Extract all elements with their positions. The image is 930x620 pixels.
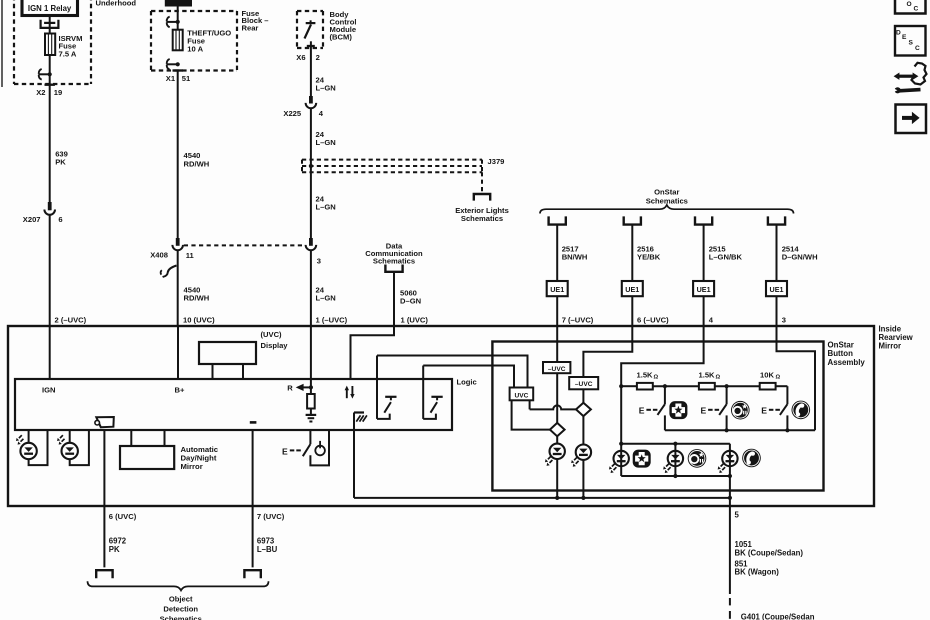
resistor ladder bus (621, 385, 787, 387)
svg-text:6: 6 (58, 215, 62, 224)
fuse ISRVM 7.5 A (45, 34, 55, 56)
svg-text:E: E (282, 446, 288, 456)
logic block UVC (510, 388, 534, 401)
svg-text:OnStar: OnStar (828, 340, 854, 349)
svg-text:X408: X408 (150, 251, 168, 260)
pin label 3 (782, 316, 786, 325)
button LED 2 (663, 444, 683, 476)
wire into THEFT fuse (177, 7, 179, 30)
svg-text:3: 3 (317, 257, 321, 266)
svg-text:Detection: Detection (163, 605, 198, 614)
body control module dashed box (297, 11, 323, 48)
label Inside Rearview Mirror (879, 324, 914, 350)
terminal hook below X408 (161, 266, 177, 278)
svg-text:BN/WH: BN/WH (562, 252, 588, 261)
pin label 5 (735, 510, 740, 519)
underhood fuse block dashed box (14, 0, 91, 84)
label OnStar Button Assembly (828, 340, 866, 367)
label X6 2 (296, 53, 320, 62)
svg-text:BK (Coupe/Sedan): BK (Coupe/Sedan) (735, 548, 804, 557)
wire UVC to diode 1 (512, 400, 550, 429)
svg-text:D–GN: D–GN (400, 296, 421, 305)
svg-text:X6: X6 (296, 53, 305, 62)
node R with arrow (287, 383, 313, 392)
wire 4540 RD/WH upper (177, 71, 179, 239)
svg-text:Ω: Ω (716, 374, 721, 380)
wire B+ feed (177, 326, 179, 379)
svg-text:UE1: UE1 (697, 285, 711, 294)
svg-text:5: 5 (735, 510, 740, 519)
photocell 2 (57, 430, 89, 465)
svg-text:UVC: UVC (514, 392, 528, 399)
logic block -UVC first (543, 362, 570, 373)
svg-text:Display: Display (261, 341, 289, 350)
wire UVC to diode 2 with hop (530, 400, 576, 409)
svg-text:6 (UVC): 6 (UVC) (109, 512, 137, 521)
connector UE1 on 2514 (766, 281, 787, 296)
pin label 7 (UVC) (257, 512, 285, 521)
wire 639 PK lower (49, 215, 51, 326)
label ISRVM Fuse 7.5 A (59, 34, 83, 59)
svg-text:Underhood: Underhood (96, 0, 137, 7)
terminal label minus (250, 421, 257, 424)
svg-text:10 A: 10 A (187, 44, 203, 53)
icon phone small (742, 449, 761, 468)
svg-text:YE/BK: YE/BK (637, 252, 661, 261)
terminal label B+ (175, 385, 185, 394)
svg-text:Ω: Ω (654, 374, 659, 380)
pin label 4 (709, 316, 714, 325)
logic block -UVC second (569, 377, 598, 389)
label Automatic Day/Night Mirror (181, 445, 219, 471)
button switch 2 onstar (701, 386, 727, 430)
connector UE1 on 2516 (622, 281, 643, 296)
svg-text:X2: X2 (36, 88, 45, 97)
svg-text:4: 4 (319, 109, 324, 118)
label 4540 RD/WH second (184, 285, 210, 302)
label Data Communication Schematics (365, 241, 423, 265)
pin label 6 (–UVC) (637, 316, 669, 325)
off-page connector wire 2514 (768, 216, 785, 224)
LED row top rail (619, 442, 730, 446)
connector X408 on L-GN wire (306, 238, 317, 250)
svg-text:51: 51 (182, 74, 191, 83)
label 5060 D-GN (400, 288, 421, 305)
node after R1 (663, 384, 667, 388)
wire 6972 PK (103, 430, 105, 567)
connector UE1 on 2515 (693, 281, 714, 296)
case ground in mirror (354, 413, 367, 422)
connector X408 on RD/WH wire (172, 238, 183, 250)
svg-text:RD/WH: RD/WH (184, 159, 210, 168)
svg-text:O: O (907, 1, 912, 8)
svg-text:UE1: UE1 (770, 285, 784, 294)
relay box stub (cut off) (165, 0, 192, 7)
nav icon component locator (893, 63, 926, 94)
svg-text:L–GN: L–GN (316, 84, 336, 93)
icon emergency cross (669, 401, 687, 419)
ground bus wire (354, 497, 730, 499)
wire 6(-UVC) into -UVC second (583, 326, 632, 377)
label Body Control Module (BCM) (330, 10, 357, 42)
brace OnStar (540, 205, 794, 214)
connector UE1 on 2517 (547, 281, 568, 296)
label G401 ground (741, 613, 815, 620)
wire 2517 into mirror (556, 296, 558, 326)
connector X225 (306, 96, 317, 108)
wire from IGN 1 Relay (49, 16, 51, 34)
connector pin bar X6-2 (307, 45, 315, 47)
svg-text:D–GN/WH: D–GN/WH (782, 252, 818, 261)
svg-text:Assembly: Assembly (828, 358, 866, 367)
svg-text:PK: PK (109, 545, 120, 554)
nav icon DESC box (895, 26, 926, 56)
label Fuse Block - Rear (242, 9, 269, 33)
wire IGN feed (49, 326, 51, 379)
off-page connector 6972 (96, 570, 112, 578)
connector pin bar X2-19 (45, 83, 55, 85)
power symbol (315, 441, 325, 455)
svg-text:UE1: UE1 (550, 285, 564, 294)
photocell 1 (16, 430, 48, 465)
svg-text:(UVC): (UVC) (261, 330, 283, 339)
svg-text:Mirror: Mirror (181, 462, 203, 471)
svg-text:2: 2 (316, 53, 320, 62)
diode diamond 1 (550, 423, 565, 436)
relay socket terminal (41, 20, 59, 28)
wire 639 PK upper (49, 84, 51, 202)
svg-text:C: C (915, 45, 920, 52)
nav icon LOC box (895, 0, 926, 14)
label 2516 YE/BK (637, 244, 661, 261)
off-page connector exterior lights (474, 194, 490, 201)
off-page connector wire 2515 (695, 216, 712, 224)
pin label 7 (–UVC) (562, 316, 594, 325)
svg-text:10 (UVC): 10 (UVC) (183, 316, 215, 325)
junction at J379 (309, 164, 313, 168)
mirror internal circuit box (15, 379, 452, 430)
resistor R1 1.5K (637, 383, 653, 390)
svg-text:1.5K: 1.5K (637, 371, 654, 380)
wire 2514 D–GN/WH (776, 225, 778, 281)
label Object Detection Schematics (160, 594, 202, 620)
label OnStar Schematics (646, 188, 688, 206)
label Underhood (96, 0, 137, 7)
BCM output driver switch (305, 20, 316, 38)
label X2 19 (36, 88, 62, 97)
earth ground in mirror (306, 415, 317, 422)
label 24 L-GN c (316, 194, 336, 211)
label 24 L-GN b (316, 130, 336, 147)
off-page connector wire 2516 (624, 216, 641, 224)
svg-text:2 (–UVC): 2 (–UVC) (55, 316, 87, 325)
svg-text:B+: B+ (175, 385, 185, 394)
resistor R3 10K (760, 383, 776, 390)
LED row bottom rail (621, 474, 732, 478)
svg-text:D: D (896, 29, 901, 36)
label 2517 BN/WH (562, 244, 588, 261)
pin label 1 (-UVC) (316, 316, 348, 325)
svg-text:S: S (909, 40, 914, 47)
button switch 1 emergency (639, 386, 665, 430)
forward sensor glyph (95, 417, 114, 427)
svg-text:RD/WH: RD/WH (184, 294, 210, 303)
wire bus to switch 3 (786, 386, 788, 404)
svg-text:L–GN/BK: L–GN/BK (709, 252, 743, 261)
svg-text:E: E (761, 405, 767, 415)
data in/out arrows (345, 386, 355, 399)
svg-text:11: 11 (186, 251, 195, 260)
off-page connector wire 2517 (549, 216, 566, 224)
label pin 3 of X408 (317, 257, 321, 266)
button LED 1 (609, 444, 629, 476)
wire 6973 L-BU (252, 430, 254, 567)
label Logic (457, 377, 477, 386)
label 2515 L–GN/BK (709, 244, 743, 261)
label 1051 BK / 851 BK (735, 540, 804, 577)
connector X207 (44, 202, 55, 215)
relay K-IGN1 IGN 1 Relay (22, 0, 78, 16)
svg-text:C: C (914, 5, 919, 12)
wire 2517 BN/WH (556, 225, 558, 281)
svg-text:X1: X1 (166, 74, 176, 83)
svg-text:OnStar: OnStar (654, 188, 679, 197)
wire 2516 YE/BK (631, 225, 633, 281)
label J379 (488, 157, 505, 166)
svg-text:Rear: Rear (242, 23, 259, 32)
label 6972 PK (109, 536, 127, 553)
label X207 6 (23, 215, 63, 224)
wire pin 3 to common return (777, 326, 816, 430)
label 6973 L-BU (257, 536, 278, 553)
pin label 2 (-UVC) (55, 316, 87, 325)
svg-text:Schematics: Schematics (461, 214, 503, 223)
label THEFT/UGO Fuse 10 A (187, 29, 231, 54)
terminal fork below THEFT fuse (166, 59, 179, 70)
svg-text:Button: Button (828, 349, 854, 358)
dashed drop to exterior lights (481, 172, 483, 193)
svg-text:L–GN: L–GN (316, 202, 336, 211)
label 1.5K ohm b (699, 371, 721, 381)
wire pin 4 feed (621, 326, 703, 444)
svg-text:L–GN: L–GN (316, 294, 336, 303)
splice pack J379 dashed (302, 160, 482, 173)
connector pin bar X1-51 (173, 69, 183, 71)
resistor R2 1.5K (699, 383, 715, 390)
X408 dashed connector tie line (184, 244, 305, 246)
svg-text:19: 19 (54, 88, 62, 97)
wire -UVC to diode 1 (556, 373, 558, 423)
svg-text:E: E (902, 34, 907, 41)
svg-text:Ω: Ω (776, 374, 781, 380)
svg-text:X207: X207 (23, 215, 41, 224)
logic switch 1 (377, 379, 397, 419)
logic switch 2 (423, 379, 443, 419)
wire pin 5 / 1051 BK (728, 476, 732, 619)
wire 2514 into mirror (776, 296, 778, 326)
wire 2516 into mirror (631, 296, 633, 326)
label X1 51 (166, 74, 191, 83)
ground wire to bus (353, 413, 355, 498)
svg-text:IGN 1 Relay: IGN 1 Relay (28, 4, 72, 13)
svg-text:–UVC: –UVC (575, 381, 593, 388)
svg-text:PK: PK (55, 158, 66, 167)
off-page connector 6973 (244, 570, 260, 578)
display box (UVC) (199, 342, 256, 379)
svg-text:1 (UVC): 1 (UVC) (401, 316, 429, 325)
wire -UVC second to diode 2 (582, 389, 584, 402)
label (UVC) Display (261, 330, 289, 350)
svg-text:L–BU: L–BU (257, 545, 278, 554)
nav icon next arrow box (896, 105, 927, 134)
fuse THEFT/UGO 10 A (173, 30, 183, 51)
brace object detection (88, 581, 269, 590)
wire 2515 L–GN/BK (703, 225, 705, 281)
label 4540 RD/WH (184, 151, 210, 168)
svg-text:6 (–UVC): 6 (–UVC) (637, 316, 669, 325)
svg-text:3: 3 (782, 316, 786, 325)
svg-text:7 (UVC): 7 (UVC) (257, 512, 285, 521)
svg-text:G401 (Coupe/Sedan: G401 (Coupe/Sedan (741, 613, 815, 620)
icon phone button (792, 401, 811, 420)
svg-text:(BCM): (BCM) (330, 33, 353, 42)
terminal fork at X2 (38, 69, 52, 80)
inside rearview mirror box (8, 326, 874, 506)
icon onstar logo button (731, 401, 750, 420)
node after R2 (725, 384, 729, 388)
svg-text:BK (Wagon): BK (Wagon) (735, 568, 780, 577)
svg-text:10K: 10K (760, 371, 774, 380)
svg-text:Mirror: Mirror (879, 341, 902, 350)
icon onstar small (688, 449, 707, 468)
svg-text:Schematics: Schematics (160, 615, 202, 620)
pin label 10 (UVC) (183, 316, 215, 325)
svg-text:1.5K: 1.5K (699, 371, 716, 380)
button common return line (665, 428, 815, 432)
wire 4540 RD/WH lower (177, 250, 179, 326)
svg-text:UE1: UE1 (625, 285, 639, 294)
svg-text:X225: X225 (283, 109, 302, 118)
svg-text:4: 4 (709, 316, 714, 325)
onstar button assembly box (492, 342, 823, 491)
label 10K ohm (760, 371, 781, 381)
wire 2515 into mirror (703, 296, 705, 326)
svg-text:Schematics: Schematics (373, 257, 415, 266)
resistor in mirror (307, 387, 315, 414)
svg-text:7.5 A: 7.5 A (59, 50, 77, 59)
fuse block rear dashed box (151, 11, 237, 71)
wire 24 L-GN from BCM (310, 41, 312, 96)
diode diamond 2 (576, 403, 591, 416)
label X408 11 (150, 251, 194, 261)
wire 24 L-GN to mirror (310, 250, 312, 326)
svg-text:IGN: IGN (42, 385, 56, 394)
svg-text:R: R (287, 383, 293, 392)
button switch 3 phone (761, 404, 787, 430)
wire below ISRVM fuse (49, 55, 51, 84)
logic switch 1 top wire (377, 356, 528, 388)
power switch E (282, 430, 329, 465)
svg-text:7 (–UVC): 7 (–UVC) (562, 316, 594, 325)
wire 5060 D-GN (351, 272, 395, 379)
pin label 1 (UVC) (401, 316, 429, 325)
automatic day/night mirror box (120, 430, 174, 469)
label 639 PK (55, 149, 68, 166)
label Exterior Lights Schematics (455, 206, 509, 223)
svg-text:E: E (701, 405, 707, 415)
svg-text:J379: J379 (488, 157, 505, 166)
button LED 3 (718, 444, 738, 476)
pin label 6 (UVC) (109, 512, 137, 521)
label 2514 D–GN/WH (782, 244, 818, 261)
terminal label IGN (42, 385, 56, 394)
label X225 4 (283, 109, 323, 118)
indicator LED 2 (571, 416, 591, 500)
terminal fork above THEFT fuse (166, 17, 179, 28)
label 24 L-GN d (316, 286, 336, 303)
logic switch 2 top wire (423, 366, 514, 388)
wire R input (310, 326, 312, 387)
off-page connector data communication (385, 265, 402, 272)
wire 7(-UVC) into -UVC (556, 326, 558, 362)
icon cross small (633, 450, 651, 468)
svg-text:Object: Object (169, 594, 193, 603)
page edge artifact (1, 0, 3, 87)
svg-text:E: E (639, 405, 645, 415)
indicator LED 1 (545, 436, 565, 500)
svg-text:L–GN: L–GN (316, 138, 336, 147)
junction left rail resistor bus (619, 384, 623, 388)
svg-text:Logic: Logic (457, 377, 477, 386)
label 1.5K ohm a (637, 371, 659, 381)
svg-text:–UVC: –UVC (548, 366, 566, 373)
svg-text:1 (–UVC): 1 (–UVC) (316, 316, 348, 325)
label 24 L-GN a (316, 75, 336, 92)
wire 24 L-GN to J379 (310, 108, 312, 238)
